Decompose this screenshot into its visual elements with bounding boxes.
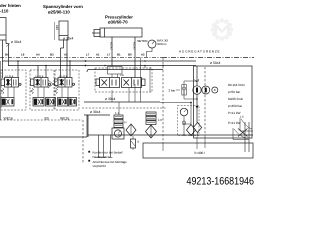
svg-text:B3: B3 [50, 53, 54, 57]
svg-text:verplombt: verplombt [93, 164, 106, 168]
svg-text:60/45 l/min: 60/45 l/min [228, 97, 243, 101]
characteristic curve graph 1 [240, 118, 253, 131]
svg-text:30l/min: 30l/min [157, 42, 167, 46]
valve V4a (left spool) [96, 78, 120, 88]
label Spannzylinder vorn [43, 4, 83, 15]
gauge unit 1.1 [112, 111, 124, 139]
svg-text:A1: A1 [96, 53, 100, 57]
note bullet 1 [88, 151, 90, 153]
pressure gauge FC1 [147, 40, 157, 57]
svg-text:80-116 l/min: 80-116 l/min [228, 83, 245, 87]
notes text [93, 151, 128, 169]
svg-text:1.0: 1.0 [158, 118, 162, 122]
watermark M glyph [216, 26, 228, 35]
svg-text:1.8: 1.8 [240, 116, 244, 119]
wire Z1 ports down [3, 40, 9, 78]
tank [143, 143, 253, 158]
check valve CV2 [182, 121, 185, 124]
dashed vertical x83 [82, 120, 84, 163]
svg-text:V=400 l: V=400 l [194, 151, 205, 155]
watermark gear logo [211, 18, 234, 41]
watermark id number [187, 175, 255, 187]
svg-text:Nachruesten: Nachruesten [93, 155, 110, 159]
dashed vertical x205 [204, 67, 206, 135]
boundary line left (dash-dot) [0, 56, 162, 58]
junction dots [17, 60, 164, 66]
valve V8b (sandwich plate) [69, 98, 77, 107]
valve V8a (sandwich plate) [58, 98, 68, 107]
dashed line mid [82, 107, 166, 109]
wire Z2 ports down [61, 40, 68, 78]
cylinder Z3 (Presszylinder, horizontal) [92, 28, 142, 37]
suction filter F4 [193, 123, 201, 137]
junction dots on T [118, 134, 192, 136]
wire risers to valves [18, 37, 135, 78]
svg-text:ø 50x4: ø 50x4 [210, 61, 220, 65]
svg-text:ø30/60-70: ø30/60-70 [108, 20, 128, 25]
svg-text:B1: B1 [117, 53, 121, 57]
label above V4 [120, 74, 124, 77]
svg-text:der hinten: der hinten [0, 3, 21, 8]
label B3 [45, 117, 49, 121]
pressure gauge PG1 [180, 108, 188, 135]
valve V6 (sandwich plate) [1, 98, 14, 107]
gauge unit 1.0 [146, 112, 162, 124]
svg-text:p=50 bar: p=50 bar [228, 90, 240, 94]
port marks above row1 [5, 75, 68, 78]
power unit box [194, 66, 253, 138]
dimension 110 (Z2) [55, 25, 59, 30]
wire manifold top [84, 101, 160, 103]
pump P2 [202, 86, 210, 94]
pump P1 [193, 79, 201, 94]
svg-text:p=: p= [124, 121, 127, 124]
manifold left edge [0, 61, 2, 120]
wire 1.1 down [118, 102, 120, 139]
pipe label ø30x4 (Z1) [11, 40, 21, 44]
svg-text:p=450 bar: p=450 bar [228, 104, 242, 108]
label 30l/min MAX [137, 39, 168, 47]
check/filter F1 [124, 121, 136, 136]
svg-text:ø 30x4: ø 30x4 [105, 97, 115, 101]
pipe label ø30x4 (lower) [90, 110, 100, 114]
svg-text:A4: A4 [36, 53, 40, 57]
valve V4b (right spool) [122, 78, 146, 88]
wire return line T [88, 134, 253, 136]
wire branch from manifold [160, 102, 191, 104]
svg-text:A L10 B: A L10 B [59, 75, 68, 78]
characteristic curve graph 2 + crossed pipes [233, 128, 249, 140]
svg-text:A L10 B: A L10 B [35, 75, 44, 78]
cooler drop pipes [97, 135, 113, 158]
svg-text:A3: A3 [64, 53, 68, 57]
svg-text:3 bar: 3 bar [169, 89, 176, 93]
svg-text:P=11 kW: P=11 kW [228, 111, 240, 115]
pipe label ø12x2 b [133, 42, 137, 50]
wire crossover V2-V3 [48, 80, 58, 88]
label WE16 [60, 117, 69, 121]
pipe label ø30x4 (under V4) [105, 97, 115, 101]
note bullet 2 [88, 160, 90, 162]
svg-text:110: 110 [55, 25, 59, 30]
dashed enclosure V4 [95, 68, 152, 92]
dashed enclosure PG1 [178, 106, 200, 136]
svg-text:B4: B4 [5, 53, 9, 57]
dashed station boundary vertical [162, 58, 164, 143]
svg-text:L7: L7 [107, 53, 111, 57]
junction node [144, 65, 146, 67]
svg-text:P=11 kW: P=11 kW [228, 121, 240, 125]
svg-text:Spannzylinder vorn: Spannzylinder vorn [43, 4, 83, 9]
dashed enclosure column3 [55, 70, 79, 110]
check/filter F2 [146, 125, 157, 138]
wire pump up to P-line [196, 66, 198, 123]
wire to gauge block [0, 115, 110, 137]
return filter B [131, 136, 140, 150]
pipe label ø50x4 [210, 61, 220, 65]
valve V7b (sandwich plate) [46, 98, 56, 107]
svg-text:L9: L9 [21, 53, 25, 57]
wires row1 to row2 [8, 87, 68, 98]
dashed enclosure column2 [30, 70, 54, 110]
valve V4 cap block [108, 67, 123, 75]
svg-text:A2: A2 [141, 53, 145, 57]
cylinder Z2 (Spannzylinder vorn) [59, 21, 68, 48]
spec text block [228, 83, 245, 115]
svg-text:ø 30x4: ø 30x4 [11, 40, 21, 44]
node P-line [2, 60, 196, 62]
label AGGREGATGRENZE [179, 50, 220, 54]
filter F3 [184, 124, 196, 136]
valve V1 (WE solenoid valve) [1, 78, 21, 95]
pipe label ø12x2 a [110, 42, 114, 50]
valve V2 (WE solenoid valve) [31, 78, 51, 95]
svg-text:-110: -110 [0, 9, 9, 14]
svg-text:A B: A B [120, 74, 124, 77]
svg-text:L7: L7 [86, 53, 90, 57]
dashed lower boundary of valve station [0, 119, 82, 121]
svg-text:A L10 B: A L10 B [5, 75, 14, 78]
valve V7a (sandwich plate) [33, 98, 44, 107]
label P=11 kW [228, 121, 240, 125]
label WE16 [4, 117, 13, 121]
pipe label ø30x4 (Z2) [63, 37, 73, 41]
node T-line [8, 65, 196, 67]
tank internal pipes [163, 135, 205, 151]
svg-text:ø 30x4: ø 30x4 [63, 37, 73, 41]
gauge small [212, 87, 218, 93]
svg-text:B0: B0 [128, 53, 132, 57]
svg-text:B: B [138, 141, 140, 144]
wire V4 down [129, 67, 150, 102]
svg-text:ø25/90-110: ø25/90-110 [48, 10, 70, 15]
port labels on boundary [5, 53, 145, 57]
arrow mark below pump [196, 106, 199, 109]
check valve bypass 3 bar [169, 80, 198, 100]
cylinder Z1 (Spannzylinder hinten, cut at left edge) [0, 18, 10, 48]
boundary line right (dash-dot) [162, 57, 254, 59]
svg-text:49213-16681946: 49213-16681946 [187, 175, 255, 187]
label 1.8 [240, 116, 244, 119]
svg-text:1.1: 1.1 [115, 111, 119, 115]
suction pipes into tank [245, 122, 249, 152]
label Spannzylinder hinten (cut) [0, 3, 21, 14]
label Presszylinder [105, 15, 133, 25]
svg-text:3B/TEM: 3B/TEM [137, 39, 148, 43]
svg-text:AGGREGATGRENZE: AGGREGATGRENZE [179, 50, 220, 54]
dashed enclosure column1 [1, 70, 26, 110]
valve V3 (WE solenoid valve) [55, 78, 75, 95]
node L-line [87, 70, 163, 73]
svg-text:ø 30x4: ø 30x4 [90, 110, 100, 114]
